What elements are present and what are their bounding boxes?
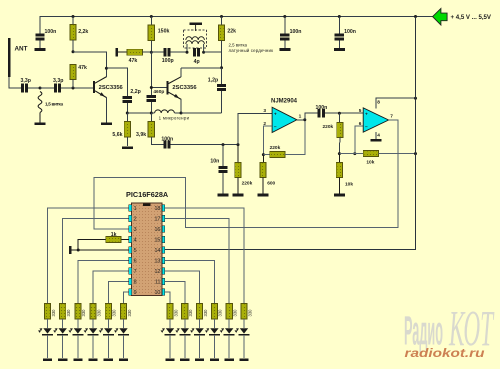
svg-text:10n: 10n [210, 158, 219, 164]
ground (LED 11) [225, 358, 234, 361]
wire pin18 to R330 col12 [165, 208, 244, 304]
wire 460p to node [150, 102, 152, 113]
wire 150k rail down [150, 52, 152, 95]
ground (LED 7) [165, 358, 174, 361]
resistor R 5,6k [126, 113, 128, 122]
svg-text:330: 330 [96, 309, 101, 317]
capacitor C 1,2p [221, 68, 223, 84]
svg-text:3: 3 [263, 108, 266, 114]
wire pin8 to R330 col5 [108, 282, 128, 304]
resistor R 10k (horizontal) [339, 153, 363, 155]
svg-text:10k: 10k [345, 181, 353, 187]
node ref left [338, 152, 341, 155]
resistor R 2,2k [72, 17, 74, 25]
svg-text:1,2p: 1,2p [208, 77, 218, 83]
wire Q1 collector [105, 68, 107, 77]
ground (LED 6) [119, 358, 128, 361]
resistor R 47k (feedback) [70, 64, 76, 79]
svg-text:−: − [365, 126, 368, 131]
ground (LED 8) [180, 358, 189, 361]
svg-text:330: 330 [81, 309, 86, 317]
node detector left [126, 112, 129, 115]
LED D11 [225, 328, 233, 333]
pin 12 (right) [162, 268, 165, 275]
resistor R 10k (to ground) [338, 154, 340, 163]
resistor R 3,9k [150, 113, 152, 122]
wire collector node to Q2 [181, 67, 222, 69]
svg-text:330: 330 [51, 309, 56, 317]
op-amp U1 NJM2904 [272, 107, 297, 132]
svg-text:12: 12 [154, 269, 160, 275]
LED D6 [119, 328, 127, 333]
wire pin17 to R330 col11 [165, 219, 229, 304]
wire U2 pin 4 ground [375, 132, 377, 139]
ground (LED 10) [210, 358, 219, 361]
ground (LED 4) [89, 358, 98, 361]
node U1 output [303, 118, 306, 121]
node Q2 base [150, 86, 153, 89]
node Q2 collector [220, 66, 223, 69]
svg-text:5,6k: 5,6k [112, 132, 122, 138]
resistor R 600 [262, 155, 264, 163]
svg-text:330: 330 [203, 309, 208, 317]
inductor L 1,5 витка [38, 92, 42, 113]
node key [77, 249, 80, 252]
svg-text:6: 6 [134, 259, 137, 265]
svg-text:9: 9 [134, 290, 137, 296]
watermark [404, 308, 443, 354]
svg-text:330: 330 [188, 309, 193, 317]
svg-text:5: 5 [359, 108, 362, 114]
wire VDD rail to PIC pin 14 [165, 17, 416, 250]
svg-text:2: 2 [134, 217, 137, 223]
svg-text:2,5 витка: 2,5 витка [229, 43, 248, 48]
svg-text:15: 15 [154, 238, 160, 244]
pin 18 (right) [162, 205, 165, 212]
antenna ANT [8, 38, 10, 77]
svg-text:4p: 4p [194, 59, 200, 65]
pin 9 (left) [129, 289, 132, 296]
pin 17 (right) [162, 215, 165, 222]
wire LED 1 cathode [47, 335, 49, 358]
wire collector to C 2,2p [106, 68, 127, 96]
svg-text:330: 330 [218, 309, 223, 317]
svg-text:330: 330 [247, 309, 252, 317]
node 150k-47k-100p [150, 51, 153, 54]
node U1 minus [262, 153, 265, 156]
svg-text:6: 6 [359, 121, 362, 127]
ground (10n) [218, 194, 229, 197]
wire U2 pin 8 supply [376, 98, 416, 108]
LED D3 [74, 328, 82, 333]
node rail-22k [220, 15, 223, 18]
wire U1 -input [263, 126, 272, 155]
svg-text:22k: 22k [227, 29, 236, 35]
pin 8 (left) [129, 278, 132, 285]
wire 100n to nodes [171, 144, 239, 146]
wire tank to 22k node [204, 51, 222, 53]
capacitor C 100p [151, 51, 163, 53]
ground (5,6k) [122, 146, 133, 149]
pin 4 (left) [129, 236, 132, 243]
LED D8 [181, 328, 189, 333]
LED D9 [195, 328, 203, 333]
svg-text:10: 10 [154, 290, 160, 296]
pin 5 (left) [129, 247, 132, 254]
svg-text:4: 4 [377, 133, 380, 139]
node ant junction [39, 87, 42, 90]
resistor R330 #9 [197, 304, 203, 319]
pin 13 (right) [162, 257, 165, 264]
pin 14 (right) [162, 247, 165, 254]
wire U1 output [297, 119, 305, 121]
wire U2 output to PIC pin3 (around) [94, 120, 398, 229]
svg-text:+: + [365, 113, 368, 118]
resistor R330 #7 [167, 304, 173, 319]
wire to U1 +input [238, 113, 272, 144]
wire antenna to C1 [9, 77, 21, 88]
wire pin6 to R330 col3 [78, 261, 129, 304]
wire pin9 to R330 col6 [124, 292, 129, 304]
svg-text:2,2p: 2,2p [130, 89, 140, 95]
wire U2 -input [355, 126, 363, 153]
wire Q2 collector [180, 68, 182, 77]
resistor R330 #5 [105, 304, 111, 319]
capacitor C 460p [147, 95, 156, 98]
pin 11 (right) [162, 278, 165, 285]
svg-text:150k: 150k [158, 29, 170, 35]
resistor R330 #8 [182, 304, 188, 319]
svg-text:+ 4,5 V ... 5,5V: + 4,5 V ... 5,5V [451, 14, 492, 21]
node Q2 emitter [180, 112, 183, 115]
svg-text:3,9k: 3,9k [136, 132, 146, 138]
wire pin2 to R330 col2 [63, 219, 129, 304]
wire pin13 to R330 col10 [165, 261, 215, 304]
transistor Q1 2SC3356 [93, 81, 95, 93]
svg-text:3,3p: 3,3p [21, 78, 31, 84]
wire emitter to 1,2p [181, 112, 222, 114]
capacitor C 100n (coupling) [163, 141, 166, 149]
node emitter net left [150, 112, 153, 115]
svg-text:3: 3 [134, 227, 137, 233]
ground (100n left) [35, 48, 46, 51]
terminal (47k input) [115, 48, 118, 56]
node feedback tap [72, 50, 75, 53]
svg-text:100n: 100n [344, 29, 356, 35]
capacitor C 3,3p (first) [21, 83, 24, 92]
resistor R330 #12 [241, 304, 247, 319]
ground (decoupling b) [334, 48, 345, 51]
wire pin7 to R330 col4 [93, 271, 129, 304]
wire LED 12 cathode [243, 335, 245, 358]
svg-text:14: 14 [154, 248, 160, 254]
svg-text:4: 4 [134, 238, 137, 244]
pin 1 (left) [129, 205, 132, 212]
resistor R 47k (horizontal) [118, 51, 127, 53]
wire C2 to base node [61, 87, 93, 89]
ground (LED 3) [73, 358, 82, 361]
wire pin12 to R330 col9 [165, 271, 200, 304]
transformer tank coil 2,5 витка [184, 30, 207, 48]
svg-text:PIC16F628A: PIC16F628A [126, 190, 169, 199]
node rail-C100n-a [283, 15, 286, 18]
svg-text:8: 8 [134, 280, 137, 286]
node tank right [202, 51, 205, 54]
capacitor C 2,2p [123, 96, 132, 99]
svg-text:330: 330 [173, 309, 178, 317]
node tank left [186, 51, 189, 54]
wire C1-junction [28, 87, 40, 89]
ground (decoupling a) [279, 48, 290, 51]
svg-text:600: 600 [267, 180, 275, 186]
wire terminal to pin5 [72, 249, 129, 251]
node U2 plus net [338, 112, 341, 115]
resistor R330 #3 [75, 304, 81, 319]
svg-text:1: 1 [299, 114, 302, 120]
pin 16 (right) [162, 226, 165, 233]
resistor R 220k (feedback) [263, 154, 269, 156]
svg-text:ANT: ANT [15, 46, 28, 53]
svg-text:radiokot.ru: radiokot.ru [405, 348, 485, 360]
node U1 plus net [237, 143, 240, 146]
svg-text:5: 5 [134, 248, 137, 254]
wire 100p to tank [171, 51, 187, 53]
wire pin1 to R330 col1 [48, 208, 129, 304]
node rail-2k2 [72, 15, 75, 18]
capacitor C 100n (decoupling b) [338, 17, 340, 34]
wire pin10 to R330 col7 [165, 292, 170, 304]
IC U3 PIC16F628A [132, 203, 162, 295]
wire LED 7 cathode [169, 335, 171, 358]
resistor R 150k [150, 17, 152, 26]
resistor R 220k (U2 bias) [338, 113, 340, 122]
capacitor C 4p [193, 48, 196, 56]
wire Q2 base [151, 87, 166, 89]
power arrow + 4,5 V ... 5,5V [433, 8, 448, 25]
ground (600) [258, 194, 269, 197]
inductor L 1 микрогенри [155, 110, 175, 113]
pin 3 (left) [129, 226, 132, 233]
resistor R330 #11 [226, 304, 232, 319]
ground (antenna coil) [35, 123, 46, 126]
svg-text:47k: 47k [129, 58, 138, 64]
resistor R330 #4 [90, 304, 96, 319]
ground (LED 12) [239, 358, 248, 361]
LED D7 [166, 328, 174, 333]
capacitor C 3,3p (second) [40, 87, 54, 89]
node rail-vdd [414, 15, 417, 18]
svg-text:2SC3356: 2SC3356 [99, 85, 124, 91]
ground (U2 pin4) [370, 139, 381, 142]
wire LED 2 cathode [62, 335, 64, 358]
resistor R330 #6 [120, 304, 126, 319]
ground (10k) [334, 194, 345, 197]
pin 10 (right) [162, 289, 165, 296]
resistor R 220k (input) [237, 145, 239, 163]
op-amp U2 NJM2904b [363, 108, 388, 132]
svg-text:3,3p: 3,3p [53, 78, 63, 84]
svg-text:18: 18 [154, 206, 160, 212]
wire LED 6 cathode [123, 335, 125, 358]
resistor R 22k [221, 17, 223, 26]
wire LED 8 cathode [184, 335, 186, 358]
node pin8 rail [414, 97, 417, 100]
ground (LED 1) [43, 358, 52, 361]
capacitor C 100n (interstage) [305, 113, 318, 120]
svg-text:2SC3356: 2SC3356 [172, 85, 197, 91]
pin 6 (left) [129, 257, 132, 264]
svg-text:330: 330 [112, 309, 117, 317]
wire LED 5 cathode [107, 335, 109, 358]
svg-text:100n: 100n [45, 29, 57, 35]
svg-text:NJM2904: NJM2904 [271, 99, 298, 105]
resistor R330 #1 [44, 304, 50, 319]
svg-text:330: 330 [233, 309, 238, 317]
svg-text:100n: 100n [161, 136, 173, 142]
pin 2 (left) [129, 215, 132, 222]
node base Q1 [72, 87, 75, 90]
transistor Q2 2SC3356 [167, 81, 169, 95]
LED D4 [89, 328, 97, 333]
wire Q2 emitter [180, 99, 182, 113]
svg-text:220k: 220k [323, 124, 334, 130]
wire 2,2p to node [126, 103, 128, 113]
svg-text:220k: 220k [270, 145, 281, 151]
node ref tap [353, 152, 356, 155]
svg-text:Радио: Радио [404, 308, 443, 354]
svg-text:7: 7 [390, 113, 393, 119]
resistor R 1k [121, 239, 129, 241]
LED D12 [240, 328, 248, 333]
wire node-node [127, 112, 151, 114]
svg-text:8: 8 [377, 100, 380, 106]
LED D1 [43, 328, 51, 333]
svg-text:17: 17 [154, 217, 160, 223]
wire LED 4 cathode [92, 335, 94, 358]
pin 15 (right) [162, 236, 165, 243]
resistor R330 #10 [211, 304, 217, 319]
svg-text:11: 11 [155, 280, 161, 286]
wire L to ground [39, 113, 41, 123]
svg-text:1,5 витка: 1,5 витка [45, 101, 63, 106]
svg-text:2,2k: 2,2k [78, 29, 88, 35]
wire LED 9 cathode [199, 335, 201, 358]
wire tap to collector [73, 52, 106, 68]
LED D5 [104, 328, 112, 333]
ground (220k input) [232, 194, 243, 197]
svg-text:1: 1 [134, 206, 137, 212]
svg-text:7: 7 [134, 269, 137, 275]
ground (LED 5) [104, 358, 113, 361]
svg-text:1k: 1k [111, 232, 117, 238]
node 10k to rail [414, 152, 417, 155]
svg-text:330: 330 [127, 309, 132, 317]
capacitor C 100n (decoupling a) [284, 17, 286, 34]
wire V+ top rail [40, 16, 433, 18]
pin 7 (left) [129, 268, 132, 275]
svg-text:100p: 100p [162, 58, 174, 64]
capacitor C 100n (rail left) [39, 17, 41, 34]
svg-text:16: 16 [154, 227, 160, 233]
svg-text:+: + [274, 113, 277, 118]
ground (LED 2) [58, 358, 67, 361]
LED D10 [210, 328, 218, 333]
svg-text:100n: 100n [290, 29, 302, 35]
svg-text:220k: 220k [242, 180, 253, 186]
wire LED 10 cathode [213, 335, 215, 358]
svg-text:1 микрогенри: 1 микрогенри [159, 115, 190, 120]
svg-text:−: − [274, 125, 277, 130]
node rail-150k [150, 15, 153, 18]
ground (LED 9) [195, 358, 204, 361]
node rail-C100n-b [338, 15, 341, 18]
svg-text:47k: 47k [78, 65, 87, 71]
wire pin11 to R330 col8 [165, 282, 185, 304]
wire LED 3 cathode [77, 335, 79, 358]
svg-text:латунный сердечник: латунный сердечник [229, 48, 274, 53]
node Q1 collector [105, 67, 108, 70]
svg-text:100n: 100n [316, 105, 328, 111]
LED D2 [59, 328, 67, 333]
capacitor C 10n [222, 145, 224, 166]
svg-text:10k: 10k [366, 160, 374, 166]
resistor R330 #2 [60, 304, 66, 319]
wire LED 11 cathode [228, 335, 230, 358]
wire Q1 emitter to ground [105, 98, 107, 123]
svg-text:460p: 460p [153, 89, 164, 95]
svg-text:330: 330 [66, 309, 71, 317]
terminal (pin5 key) [69, 246, 72, 254]
svg-text:13: 13 [154, 259, 160, 265]
node 10n [222, 143, 225, 146]
ground (Q1 emitter) [101, 123, 112, 126]
